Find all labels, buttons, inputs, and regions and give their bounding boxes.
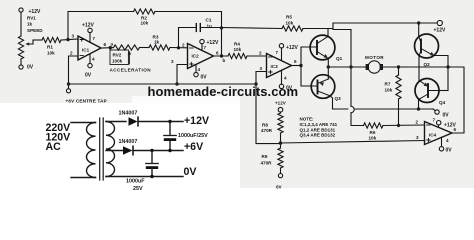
svg-text:7: 7 <box>433 118 436 123</box>
diode D2 1N4007 <box>123 146 133 154</box>
svg-text:R7: R7 <box>385 82 391 87</box>
0V output wire <box>106 176 183 178</box>
svg-text:b: b <box>223 58 226 63</box>
Q3 collector to 0V rail <box>330 96 333 109</box>
svg-text:Q3: Q3 <box>335 96 342 101</box>
svg-text:SPEED: SPEED <box>27 28 43 33</box>
hop over 0V rail <box>351 106 354 112</box>
transistor Q4 <box>415 79 439 103</box>
wire R5 node to motor-left column <box>333 30 351 107</box>
svg-text:RV1: RV1 <box>27 16 36 21</box>
svg-text:+12V: +12V <box>184 115 209 127</box>
svg-text:IC3: IC3 <box>271 64 279 69</box>
wire RV2 to R3 <box>140 47 150 49</box>
IC3 pin 7 +12V <box>279 44 283 61</box>
svg-text:1k: 1k <box>154 40 160 45</box>
transistor Q1 <box>310 35 335 60</box>
secondary top wire <box>106 121 126 123</box>
svg-text:0V: 0V <box>184 166 197 178</box>
IC1 pin 4 0V <box>88 54 92 68</box>
wire pot wiper to R1 <box>33 39 42 41</box>
svg-text:0V: 0V <box>27 65 34 71</box>
svg-text:4: 4 <box>284 76 287 81</box>
+6V output wire <box>134 150 183 152</box>
svg-text:C1: C1 <box>206 18 212 23</box>
svg-text:2: 2 <box>416 120 419 125</box>
svg-text:IC4: IC4 <box>429 133 437 138</box>
svg-text:10k: 10k <box>141 21 149 26</box>
svg-text:6: 6 <box>216 51 219 56</box>
node IC2 pin2 / C1 riser <box>177 46 180 49</box>
svg-text:IC1: IC1 <box>82 48 90 53</box>
top rail junction dot <box>417 21 420 24</box>
resistor R3 <box>149 45 170 50</box>
svg-text:Q1,2 ARE BD131: Q1,2 ARE BD131 <box>300 127 336 132</box>
svg-text:6: 6 <box>454 127 457 132</box>
svg-text:0V: 0V <box>276 185 283 190</box>
svg-text:R4: R4 <box>234 42 240 47</box>
background scan area <box>0 0 474 103</box>
resistor R6 <box>364 123 384 128</box>
svg-text:0V: 0V <box>446 148 453 154</box>
transformer core <box>100 118 104 180</box>
wire R6 to IC4 pin 2 <box>383 124 425 127</box>
svg-text:1N4007: 1N4007 <box>119 111 138 117</box>
node a dot <box>109 46 112 49</box>
wire R2 to node b riser <box>155 12 222 57</box>
svg-text:Q4: Q4 <box>439 100 446 105</box>
svg-text:Q3,4 ARE BD132: Q3,4 ARE BD132 <box>300 133 336 138</box>
svg-text:10k: 10k <box>385 88 393 93</box>
op-amp IC1 <box>78 36 101 60</box>
wire to Q1 base <box>301 47 317 66</box>
motor wire left <box>328 66 366 68</box>
svg-text:10k: 10k <box>369 136 377 141</box>
wire to Q3 base <box>301 66 318 87</box>
svg-text:+6V: +6V <box>184 141 203 153</box>
motor wire right <box>382 66 448 68</box>
svg-text:100k: 100k <box>112 59 123 64</box>
svg-text:homemade-circuits.com: homemade-circuits.com <box>148 84 299 99</box>
IC4 pin 3 wire to divider junction <box>281 141 425 144</box>
svg-text:10k: 10k <box>47 51 55 56</box>
svg-text:6: 6 <box>104 42 107 47</box>
svg-text:Q2: Q2 <box>424 62 431 67</box>
junction dots motor wire <box>327 65 330 68</box>
Q2 emitter wire to right column <box>434 56 448 91</box>
0V rail under bridge <box>333 108 434 110</box>
svg-text:2: 2 <box>182 43 185 48</box>
resistor R7 <box>396 67 401 126</box>
svg-text:4: 4 <box>198 67 201 72</box>
svg-text:+12V: +12V <box>434 28 446 34</box>
svg-text:0V: 0V <box>85 73 92 79</box>
0V terminal below R9 <box>278 174 282 178</box>
transformer T1 primary <box>87 123 96 178</box>
0V rail terminal <box>433 109 439 114</box>
svg-text:ACCELERATION: ACCELERATION <box>110 68 152 73</box>
wire R5 to +12V rail corner <box>303 23 437 29</box>
wire feedback riser to R2 <box>68 12 134 40</box>
svg-text:1u: 1u <box>207 24 213 29</box>
Q2 collector riser <box>418 23 420 36</box>
svg-text:R6: R6 <box>370 130 376 135</box>
svg-text:470R: 470R <box>261 128 273 133</box>
Q4 base wire from right column <box>438 90 448 92</box>
svg-text:2: 2 <box>70 51 73 56</box>
resistor R1 <box>42 37 61 42</box>
node b junction dots <box>220 26 223 29</box>
svg-text:+12V: +12V <box>207 40 219 46</box>
IC1 pin 7 +12V <box>88 28 92 42</box>
node at IC1 pin3 / feedback riser <box>66 38 69 41</box>
wire divider to +6V riser <box>256 84 281 144</box>
IC2 output wire to R4 <box>214 55 229 57</box>
potentiometer RV1 <box>18 8 33 69</box>
+6V centre tap rail <box>69 83 257 85</box>
svg-text:RV2: RV2 <box>113 53 122 58</box>
IC1 output wire <box>101 47 114 49</box>
centre tap terminal <box>66 84 70 93</box>
svg-text:2: 2 <box>259 51 262 56</box>
svg-text:3: 3 <box>72 34 75 39</box>
wire R1 to IC1 pin 3 <box>61 39 78 40</box>
primary input stubs <box>71 123 96 178</box>
svg-text:Q1: Q1 <box>336 56 343 61</box>
wire motor node to IC4 output riser <box>448 67 464 133</box>
op-amp IC3 <box>267 54 292 78</box>
svg-text:+12V: +12V <box>286 45 298 51</box>
svg-text:3: 3 <box>171 59 174 64</box>
svg-text:R5: R5 <box>286 15 292 20</box>
capacitor C1 <box>179 24 222 48</box>
svg-text:R1: R1 <box>47 45 53 50</box>
wire R4 to IC3 pin 2 <box>247 55 267 57</box>
+12V supply terminal top right <box>437 20 442 25</box>
wire node b riser to R5 <box>222 28 283 29</box>
svg-text:6: 6 <box>294 59 297 64</box>
svg-text:IC2: IC2 <box>192 54 200 59</box>
svg-text:4: 4 <box>92 57 95 62</box>
svg-text:a: a <box>111 42 114 47</box>
svg-text:R9: R9 <box>262 154 268 159</box>
Q1 collector riser to +12V rail <box>327 29 329 37</box>
Q2 base / Q4 emitter column <box>418 56 420 81</box>
capacitor C3 1000uF 25V <box>146 151 158 177</box>
op-amp IC2 <box>188 44 214 69</box>
svg-text:7: 7 <box>276 50 279 55</box>
rail junction dots <box>67 82 70 85</box>
transformer T1 secondary <box>106 122 115 177</box>
secondary centre tap wire <box>106 150 123 152</box>
resistor R8 <box>278 112 283 148</box>
IC3 output wire <box>292 65 302 67</box>
svg-text:1N4007: 1N4007 <box>119 139 138 145</box>
svg-text:1000uF/25V: 1000uF/25V <box>178 133 208 139</box>
IC1 pin 2 wire <box>69 56 79 84</box>
IC3 pin 4 0V <box>279 70 283 88</box>
svg-text:25V: 25V <box>133 186 143 192</box>
IC4 pin 7 +12V <box>437 121 441 128</box>
svg-text:3: 3 <box>416 135 419 140</box>
IC3 pin 3 wire <box>256 72 267 85</box>
svg-text:0V: 0V <box>443 113 450 119</box>
svg-text:+12V: +12V <box>275 101 287 106</box>
potentiometer RV2 <box>110 45 140 65</box>
diode D1 1N4007 <box>129 117 139 126</box>
node IC3 out <box>299 64 302 67</box>
+12V output wire <box>139 121 183 123</box>
Q1/Q3 emitter column <box>327 58 329 79</box>
transistor Q3 <box>311 75 335 99</box>
svg-text:3: 3 <box>260 66 263 71</box>
motor M1 <box>366 61 383 73</box>
svg-text:0V: 0V <box>201 75 208 81</box>
IC4 pin 4 0V <box>439 137 443 151</box>
Q4 collector riser to 0V rail <box>419 99 420 109</box>
svg-text:MOTOR: MOTOR <box>365 55 384 60</box>
resistor R5 <box>282 26 303 31</box>
IC2 pin 3 wire <box>177 65 188 85</box>
IC2 pin 7 +12V <box>200 39 204 50</box>
svg-text:470R: 470R <box>261 160 273 165</box>
resistor R2 <box>134 9 156 14</box>
op-amp IC4 <box>425 122 453 145</box>
transistor Q2 <box>415 34 439 58</box>
svg-text:+12V: +12V <box>29 9 41 15</box>
svg-text:1000uF: 1000uF <box>126 179 145 185</box>
svg-text:7: 7 <box>93 36 96 41</box>
divider junction node <box>279 141 283 145</box>
svg-text:10k: 10k <box>286 21 294 26</box>
svg-text:1k: 1k <box>27 22 33 27</box>
wire R3 to IC2 pin 2 <box>170 47 188 49</box>
+12V terminal above R8 <box>278 107 283 112</box>
wire hop to R6 <box>351 113 364 126</box>
svg-text:AC: AC <box>46 141 62 153</box>
resistor R4 <box>228 53 247 58</box>
svg-text:NOTE:: NOTE: <box>300 117 315 122</box>
resistor R9 <box>278 148 283 173</box>
svg-text:R8: R8 <box>262 122 268 127</box>
svg-text:+12V: +12V <box>82 23 94 29</box>
svg-text:+6V CENTRE TAP: +6V CENTRE TAP <box>66 99 107 104</box>
svg-text:10k: 10k <box>234 47 242 52</box>
IC2 pin 4 0V <box>194 65 198 77</box>
svg-text:4: 4 <box>446 138 449 143</box>
svg-text:IC1,2,3,4 ARE 741: IC1,2,3,4 ARE 741 <box>300 122 338 127</box>
capacitor C2 1000uF/25V <box>164 122 176 151</box>
